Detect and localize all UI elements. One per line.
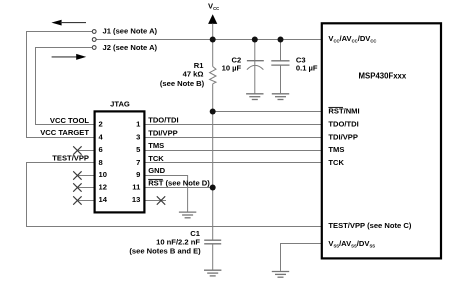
pin label TDI/VPP xyxy=(328,133,358,142)
svg-text:TCK: TCK xyxy=(148,154,164,163)
wire Vcc net to MSP430 xyxy=(96,39,321,41)
wire J1 jumper to VCC TARGET pin 4 xyxy=(27,32,94,138)
label TDO/TDI (pin 1) xyxy=(148,116,178,125)
capacitor C2 10uF (polarized) xyxy=(222,40,264,94)
svg-text:6: 6 xyxy=(99,145,103,154)
no-connect X pin 12 xyxy=(73,183,93,191)
label TMS (pin 5) xyxy=(148,141,164,150)
wire TDI/VPP net xyxy=(146,137,322,139)
label GND (pin 9) xyxy=(148,166,165,175)
svg-text:TMS: TMS xyxy=(328,145,344,154)
label TDI/VPP (pin 3) xyxy=(148,128,178,137)
svg-text:11: 11 xyxy=(132,183,141,192)
ground (JTAG GND) xyxy=(179,212,196,218)
pin 3 xyxy=(136,132,140,141)
no-connect X pin 13 xyxy=(146,196,167,204)
pin 12 xyxy=(99,183,107,192)
capacitor C3 0.1uF xyxy=(271,40,318,94)
no-connect X pin 14 xyxy=(73,196,93,204)
svg-text:47 kΩ: 47 kΩ xyxy=(183,70,204,79)
svg-text:0.1 µF: 0.1 µF xyxy=(296,63,318,72)
pin 11 xyxy=(132,183,141,192)
pin label Vcc/AVcc/DVcc xyxy=(328,34,376,43)
pin 2 xyxy=(99,120,103,129)
pin label TEST/VPP (see Note C) xyxy=(328,221,411,230)
ground (C1) xyxy=(204,270,221,276)
wire TCK net xyxy=(146,162,322,164)
pin 10 xyxy=(99,170,107,179)
svg-text:VCC TOOL: VCC TOOL xyxy=(50,116,89,125)
junction RST pin 11 xyxy=(210,185,216,191)
svg-text:10 µF: 10 µF xyxy=(222,63,242,72)
arrow from tool (right) xyxy=(52,54,87,60)
capacitor C1 10nF/2.2nF xyxy=(129,229,221,256)
pin 5 xyxy=(136,145,141,154)
pin label TCK xyxy=(328,158,344,167)
label RST (see Note D) pin 11 xyxy=(148,179,210,188)
pin label Vss/AVss/DVss xyxy=(328,239,375,248)
pin 4 xyxy=(99,132,104,141)
svg-text:GND: GND xyxy=(148,166,165,175)
svg-text:3: 3 xyxy=(136,132,140,141)
svg-text:TDO/TDI: TDO/TDI xyxy=(148,116,178,125)
label VCC TARGET xyxy=(40,128,89,137)
wire GND to ground xyxy=(146,176,188,212)
node Vcc jumper center circle xyxy=(92,38,96,42)
svg-text:8: 8 xyxy=(99,158,103,167)
svg-text:TEST/VPP: TEST/VPP xyxy=(52,154,89,163)
label TCK (pin 7) xyxy=(148,154,164,163)
svg-text:(see Note B): (see Note B) xyxy=(160,79,205,88)
svg-text:VCC TARGET: VCC TARGET xyxy=(40,128,89,137)
svg-text:JTAG: JTAG xyxy=(110,99,130,108)
svg-text:J2 (see Note A): J2 (see Note A) xyxy=(103,43,158,52)
svg-text:TDO/TDI: TDO/TDI xyxy=(328,120,358,129)
svg-text:14: 14 xyxy=(99,195,108,204)
pin label TMS xyxy=(328,145,344,154)
pin label TDO/TDI xyxy=(328,120,358,129)
svg-text:(see Notes B and E): (see Notes B and E) xyxy=(129,247,201,256)
pin 7 xyxy=(136,158,140,167)
svg-text:13: 13 xyxy=(132,195,140,204)
wire TEST/VPP net xyxy=(27,163,322,227)
wire RST vertical to C1 xyxy=(212,112,214,270)
connector jumper circle J2 xyxy=(92,43,157,52)
svg-text:J1 (see Note A): J1 (see Note A) xyxy=(103,27,158,36)
junction Vcc/C3 xyxy=(278,37,284,43)
wire TMS net xyxy=(146,150,322,152)
svg-text:9: 9 xyxy=(136,170,140,179)
ground (Vss) xyxy=(272,272,289,278)
wire TDO/TDI net xyxy=(146,124,322,126)
svg-text:TDI/VPP: TDI/VPP xyxy=(328,133,358,142)
no-connect X pin 6 xyxy=(73,146,93,154)
wire RST/NMI net xyxy=(213,111,321,113)
IC MSP430Fxxx box xyxy=(322,23,441,258)
svg-text:TDI/VPP: TDI/VPP xyxy=(148,128,178,137)
connector jumper circle J1 xyxy=(92,27,157,36)
pin 6 xyxy=(99,145,103,154)
pin 13 xyxy=(132,195,140,204)
svg-text:12: 12 xyxy=(99,183,107,192)
arrow to tool (left) xyxy=(51,20,86,26)
label TEST/VPP (pin 8) xyxy=(52,154,89,163)
svg-text:TCK: TCK xyxy=(328,158,344,167)
no-connect X pin 10 xyxy=(73,171,93,179)
wire J2 jumper to VCC TOOL pin 2 xyxy=(36,48,94,125)
junction RST/NMI / R1 xyxy=(210,109,216,115)
pin 9 xyxy=(136,170,140,179)
svg-text:MSP430Fxxx: MSP430Fxxx xyxy=(359,71,407,80)
ground (C3) xyxy=(272,94,289,100)
junction Vcc/C2 xyxy=(252,37,258,43)
wire RST pin 11 xyxy=(146,187,213,189)
resistor R1 47 kOhm xyxy=(160,40,216,112)
junction Vcc/R1 xyxy=(210,37,216,43)
svg-text:10 nF/2.2 nF: 10 nF/2.2 nF xyxy=(156,237,200,246)
pin label RST/NMI xyxy=(328,106,359,115)
pin 8 xyxy=(99,158,103,167)
pin 14 xyxy=(99,195,108,204)
svg-text:TMS: TMS xyxy=(148,141,164,150)
wire Vss to ground xyxy=(281,244,322,271)
ground (C2) xyxy=(246,94,263,100)
connector JTAG box xyxy=(95,99,145,212)
svg-text:2: 2 xyxy=(99,120,103,129)
svg-text:7: 7 xyxy=(136,158,140,167)
svg-text:RST (see Note D): RST (see Note D) xyxy=(148,179,210,188)
power VCC supply symbol xyxy=(208,2,219,40)
svg-text:R1: R1 xyxy=(194,61,204,70)
pin 1 xyxy=(136,120,141,129)
svg-text:10: 10 xyxy=(99,170,107,179)
svg-text:TEST/VPP (see Note C): TEST/VPP (see Note C) xyxy=(328,221,411,230)
label VCC TOOL xyxy=(50,116,89,125)
